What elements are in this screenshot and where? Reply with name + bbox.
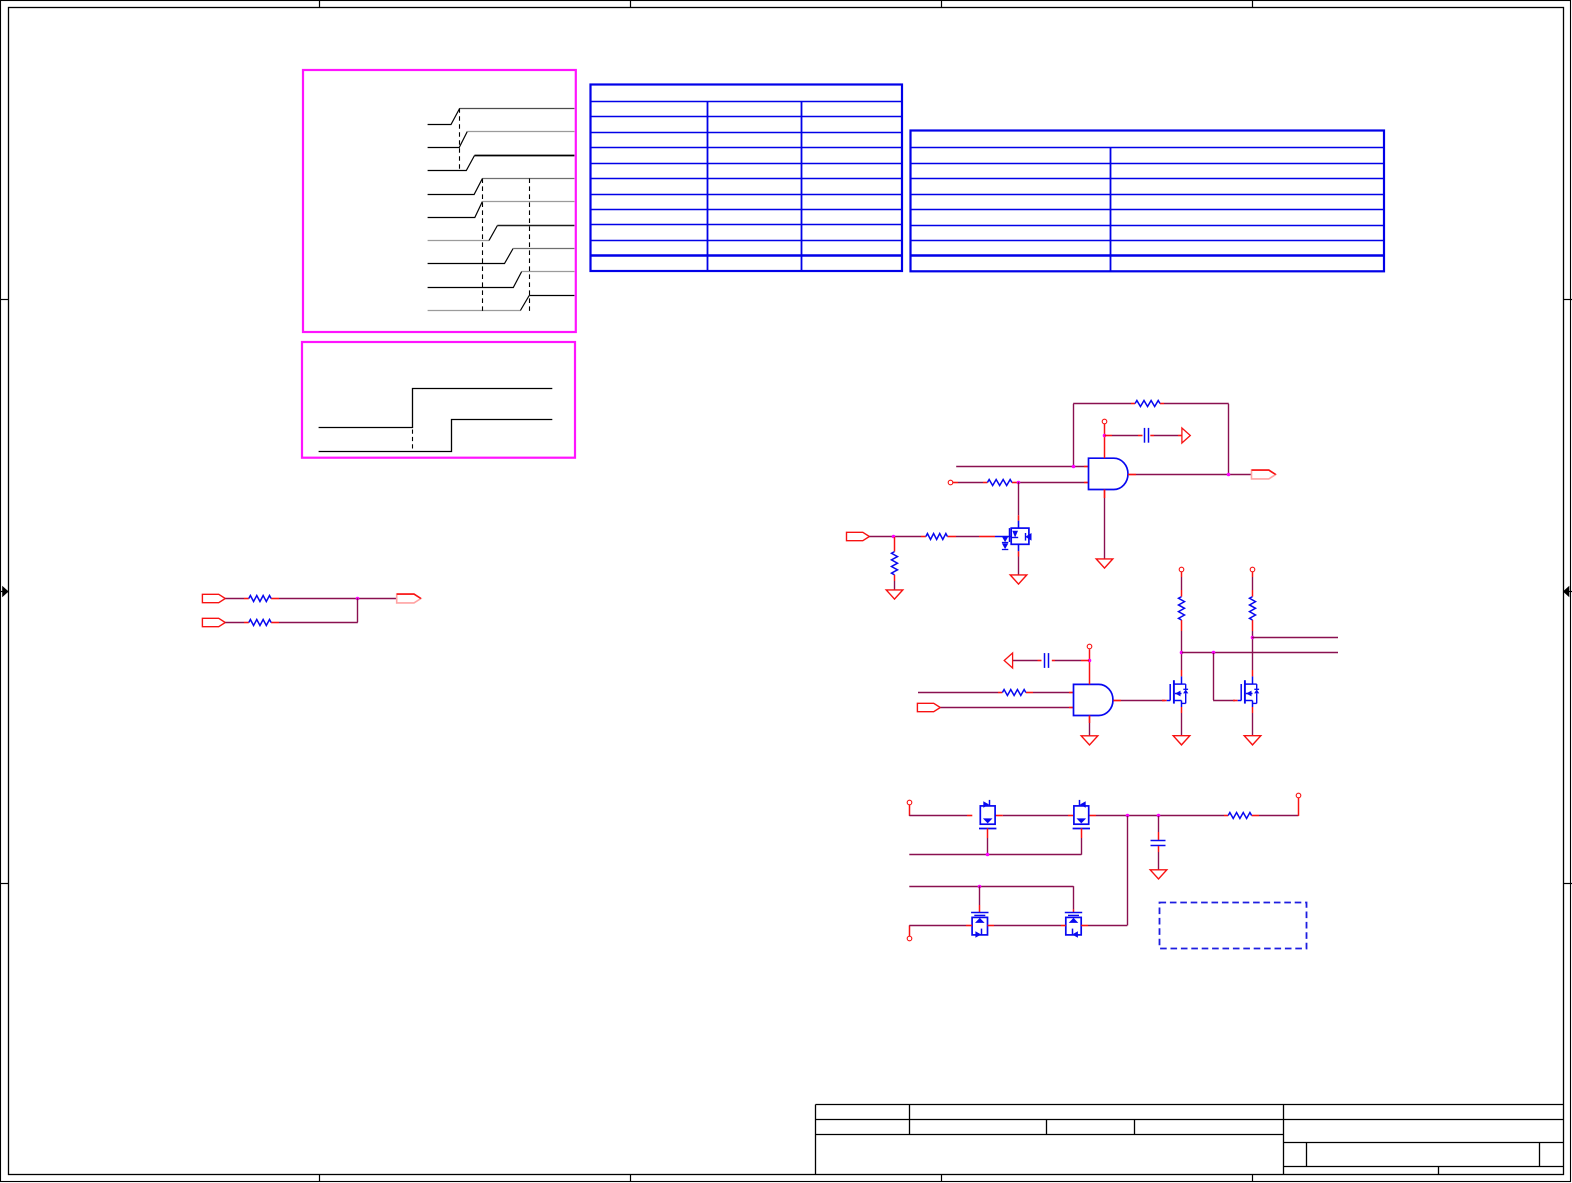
wire feedback right xyxy=(1228,404,1230,474)
wire to capacitor C1 xyxy=(1105,435,1113,437)
wire to capacitor C2 xyxy=(1081,660,1089,662)
wire top rail xyxy=(909,805,911,816)
node junction C xyxy=(1103,434,1107,438)
wire U2A vcc pin xyxy=(1089,649,1091,684)
transistor Q4 xyxy=(980,806,995,824)
wire Q4 gate xyxy=(987,828,989,838)
centering arrow left xyxy=(2,586,8,597)
timing dashed marker A xyxy=(459,108,461,171)
wire gate rail 2 xyxy=(909,886,1073,888)
waveform signal A xyxy=(319,389,553,428)
resistor R6 xyxy=(249,620,271,626)
wire R4 to ground xyxy=(894,575,896,581)
port IN4 xyxy=(202,618,225,626)
pin circle P6 xyxy=(907,800,912,805)
waveform signal 8 xyxy=(428,272,575,288)
waveform signal 2 xyxy=(428,132,575,148)
title block xyxy=(816,1105,1564,1175)
wire feedback top xyxy=(1073,403,1131,405)
zone ticks sides xyxy=(0,300,1572,884)
resistor R8 xyxy=(1179,597,1185,620)
node junction M xyxy=(986,853,990,857)
port IN5 xyxy=(917,703,940,711)
table 2 grid xyxy=(911,131,1385,272)
transistor Q3 xyxy=(1238,700,1242,702)
ground G2 xyxy=(886,590,903,599)
wire ESD branch xyxy=(1018,482,1020,515)
transistor Q7 xyxy=(1065,912,1082,914)
pin circle P8 xyxy=(907,936,912,941)
wire R6 left xyxy=(225,622,244,624)
dashed outline box xyxy=(1160,903,1307,949)
port OUT2 xyxy=(397,594,421,603)
wire U1A vcc pin xyxy=(1104,424,1106,458)
port IN3 xyxy=(202,594,225,602)
node junction L xyxy=(1157,814,1161,818)
wire port to R3 xyxy=(869,536,893,538)
waveform signal 1 xyxy=(428,109,575,125)
wire Q1 to ground xyxy=(1018,551,1020,556)
connector triangle T1 xyxy=(1182,428,1190,443)
centering arrow right xyxy=(1563,586,1569,597)
wire Q5 gate xyxy=(1081,828,1083,838)
node junction F xyxy=(356,597,360,601)
capacitor C1 xyxy=(1144,428,1146,443)
timing dashed marker C xyxy=(529,178,531,311)
pin circle P1 xyxy=(948,480,953,485)
wire feedback left xyxy=(1073,404,1075,467)
transistor Q5 xyxy=(1074,806,1089,824)
capacitor C3 xyxy=(1158,816,1160,832)
ground G6 xyxy=(1244,736,1261,745)
zone ticks top and bottom xyxy=(320,0,1253,1182)
waveform signal B xyxy=(319,420,553,452)
waveform signal 5 xyxy=(428,202,575,218)
wire Q3 drain xyxy=(1252,670,1254,676)
wire U2A input 2 xyxy=(941,707,1070,709)
node junction J xyxy=(1251,636,1255,640)
node junction A xyxy=(1072,465,1076,469)
ground G3 xyxy=(1010,575,1027,584)
wire R9 top xyxy=(1252,590,1254,597)
waveform signal 6 xyxy=(428,226,575,241)
wire Q3 gate link xyxy=(1213,653,1215,700)
wire U2A output xyxy=(1113,700,1121,702)
resistor R3 xyxy=(926,534,948,540)
wire right pin stub xyxy=(1298,798,1300,816)
resistor R5 xyxy=(249,596,271,602)
wire R5 left xyxy=(225,598,244,600)
op-amp U2A AND gate xyxy=(1074,684,1113,715)
wire U2A input 1 xyxy=(918,692,998,694)
pin circle P4 xyxy=(1179,567,1184,572)
node junction B xyxy=(1017,481,1021,485)
transistor Q1 ESD diode array xyxy=(995,521,1032,552)
transistor Q6 xyxy=(971,912,988,914)
pin circle P3 xyxy=(1087,644,1092,649)
wire bottom rail xyxy=(909,925,911,936)
resistor R2 xyxy=(987,480,1012,486)
transistor Q2 xyxy=(1167,700,1171,702)
node junction D xyxy=(1227,473,1231,477)
port IN2 xyxy=(847,532,870,540)
wire bus line lower xyxy=(1182,652,1338,654)
wire Q6 gate drop xyxy=(979,886,981,905)
waveform signal 7 xyxy=(428,249,575,264)
wire gate rail 1 xyxy=(909,854,1081,856)
table 1 grid xyxy=(591,85,903,272)
wire bus line upper xyxy=(1252,637,1338,639)
node junction G xyxy=(1088,659,1092,663)
resistor R1 xyxy=(1135,401,1160,407)
resistor R10 xyxy=(1228,813,1251,819)
wire R8 top xyxy=(1181,590,1183,597)
wire U1A input 1 xyxy=(956,466,1084,468)
pin circle P7 xyxy=(1296,793,1301,798)
wire U1A gnd pin xyxy=(1104,490,1106,499)
op-amp U1A AND gate xyxy=(1089,458,1128,489)
wire U1A output xyxy=(1128,474,1136,476)
resistor R9 xyxy=(1250,597,1256,620)
wire Q7 gate stub xyxy=(1073,909,1075,913)
resistor R4 vertical xyxy=(894,537,896,552)
wire U1A input 2 xyxy=(953,482,958,484)
pin circle P2 xyxy=(1102,419,1107,424)
node junction N xyxy=(978,885,982,889)
pin circle P5 xyxy=(1250,567,1255,572)
timing dashed marker D xyxy=(412,430,414,452)
capacitor C2 xyxy=(1044,653,1046,668)
waveform signal 9 xyxy=(428,296,575,311)
node junction E xyxy=(892,535,896,539)
waveform signal 4 xyxy=(428,179,575,195)
wire Q2 source to ground xyxy=(1181,707,1183,713)
wire U2A gnd pin xyxy=(1089,716,1091,724)
resistor R7 xyxy=(1002,690,1025,696)
timing diagram box 2 xyxy=(302,342,575,458)
timing dashed marker B xyxy=(482,178,484,311)
timing diagram box 1 xyxy=(303,70,576,332)
ground G7 xyxy=(1150,870,1167,879)
ground G4 xyxy=(1081,736,1098,745)
ground G5 xyxy=(1173,736,1190,745)
ground G1 xyxy=(1096,559,1113,568)
connector triangle T2 xyxy=(1004,653,1012,668)
port OUT1 xyxy=(1252,470,1276,479)
node junction H xyxy=(1180,651,1184,655)
node junction I xyxy=(1212,651,1216,655)
wire Q3 source to ground xyxy=(1252,707,1254,713)
node junction K xyxy=(1126,814,1130,818)
wire Q2 drain xyxy=(1181,670,1183,676)
waveform signal 3 xyxy=(428,156,575,171)
